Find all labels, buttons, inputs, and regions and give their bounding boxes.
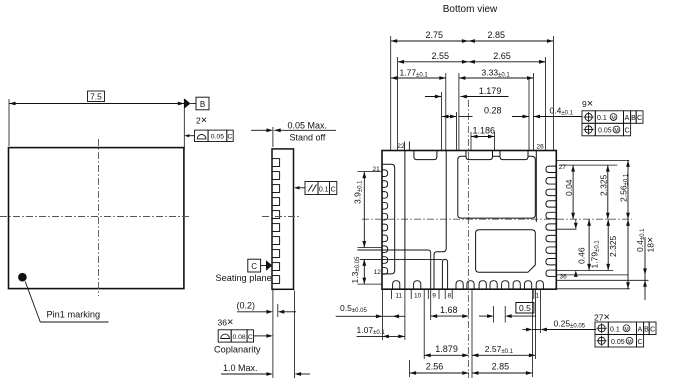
svg-text:0.46: 0.46 (576, 247, 586, 264)
svg-text:0.1: 0.1 (319, 186, 329, 193)
svg-text:10: 10 (414, 293, 422, 300)
svg-text:C: C (637, 339, 642, 346)
svg-text:0.04: 0.04 (564, 179, 574, 196)
svg-text:0.5: 0.5 (519, 303, 531, 313)
svg-text:C: C (248, 334, 253, 341)
svg-text:1.68: 1.68 (440, 305, 458, 315)
svg-text:0.1: 0.1 (610, 326, 620, 333)
svg-text:0.05: 0.05 (611, 339, 625, 346)
svg-text:(0.2): (0.2) (237, 301, 256, 311)
svg-text:M: M (624, 327, 628, 333)
svg-text:2.325: 2.325 (608, 235, 618, 257)
svg-text:Pin1 marking: Pin1 marking (47, 310, 101, 320)
svg-text:0.4±0.1: 0.4±0.1 (550, 106, 574, 117)
svg-text:9: 9 (432, 293, 436, 300)
svg-text:11: 11 (395, 293, 402, 300)
svg-text:0.05: 0.05 (598, 128, 612, 135)
svg-text:M: M (614, 128, 618, 134)
svg-text:0.28: 0.28 (484, 106, 502, 116)
svg-text:C: C (650, 326, 655, 333)
svg-text:1.0 Max.: 1.0 Max. (223, 363, 258, 373)
svg-text:Seating plane: Seating plane (216, 273, 272, 283)
svg-text:1.79±0.1: 1.79±0.1 (589, 240, 600, 269)
svg-text:0.1: 0.1 (597, 115, 607, 122)
svg-text:0.08: 0.08 (232, 334, 245, 341)
svg-text:3.9±0.1: 3.9±0.1 (353, 180, 364, 204)
svg-text:12: 12 (374, 269, 382, 276)
svg-text:C: C (331, 186, 336, 193)
svg-text:0.05: 0.05 (211, 134, 224, 141)
svg-text:1.77±0.1: 1.77±0.1 (400, 68, 429, 79)
svg-text:1.186: 1.186 (473, 126, 496, 136)
svg-text:Bottom view: Bottom view (443, 4, 498, 15)
svg-text:0.05 Max.: 0.05 Max. (288, 121, 328, 131)
svg-text:9×: 9× (582, 98, 593, 110)
svg-text:22: 22 (397, 143, 405, 150)
svg-text:B: B (631, 115, 636, 122)
svg-text:C: C (228, 134, 233, 141)
svg-text:C: C (251, 262, 257, 271)
svg-text:C: C (637, 115, 642, 122)
svg-text:3.33±0.1: 3.33±0.1 (482, 68, 511, 79)
svg-text:1.179: 1.179 (479, 86, 502, 96)
svg-text:1.879: 1.879 (435, 344, 458, 354)
svg-text:2.56: 2.56 (426, 362, 444, 372)
svg-text:B: B (644, 326, 649, 333)
svg-text:Stand off: Stand off (290, 132, 326, 142)
svg-text:1.3±0.05: 1.3±0.05 (350, 256, 361, 283)
svg-text:8: 8 (447, 293, 451, 300)
svg-text:2×: 2× (196, 115, 207, 127)
svg-text:A: A (638, 326, 643, 333)
svg-text:2.56±0.1: 2.56±0.1 (618, 173, 629, 202)
svg-text:7.5: 7.5 (90, 92, 102, 102)
svg-text:0.5±0.05: 0.5±0.05 (340, 303, 367, 314)
svg-text:Coplanarity: Coplanarity (214, 345, 261, 355)
svg-text:18×: 18× (645, 237, 657, 253)
svg-text:M: M (627, 339, 631, 345)
svg-text:2.85: 2.85 (488, 30, 506, 40)
svg-text:B: B (200, 100, 205, 109)
svg-text:1.07±0.1: 1.07±0.1 (357, 325, 386, 336)
svg-text:36×: 36× (218, 316, 234, 328)
svg-text:2.65: 2.65 (493, 51, 511, 61)
svg-text:1: 1 (535, 293, 539, 300)
svg-text:2.85: 2.85 (492, 362, 510, 372)
svg-text:2.55: 2.55 (432, 51, 450, 61)
svg-text:0.25±0.05: 0.25±0.05 (554, 318, 586, 329)
svg-text:2.75: 2.75 (426, 30, 444, 40)
svg-text:26: 26 (537, 144, 545, 151)
svg-text:2.57±0.1: 2.57±0.1 (485, 344, 514, 355)
svg-text:C: C (624, 128, 629, 135)
svg-text:A: A (625, 115, 630, 122)
svg-text:2.325: 2.325 (598, 174, 608, 196)
svg-text:M: M (611, 116, 615, 122)
